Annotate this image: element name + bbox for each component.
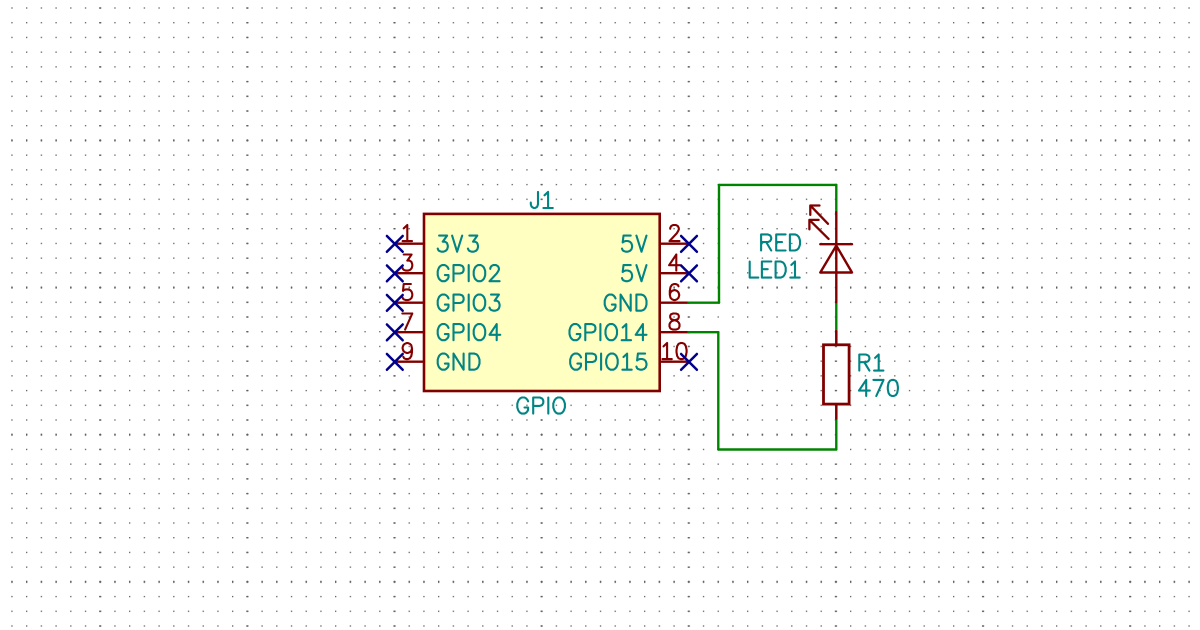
pin number 2 — [670, 225, 680, 241]
R1 bottom lead — [835, 404, 838, 418]
wire to pin8 — [689, 331, 719, 333]
pin 5 lead — [395, 302, 424, 304]
pin 8 lead — [660, 331, 689, 333]
no-connect pin 9 — [387, 354, 403, 370]
reference LED1 — [750, 262, 800, 278]
pin number 1 — [403, 225, 412, 241]
pin name GPIO3 — [438, 295, 500, 311]
no-connect pin 10 — [681, 354, 697, 370]
pin 3 lead — [395, 272, 424, 274]
reference J1 — [531, 192, 553, 208]
pin number 6 — [670, 284, 679, 300]
pin 2 lead — [660, 242, 689, 244]
LED1 top lead — [835, 212, 837, 243]
LED1 emission arrow 1 — [810, 206, 828, 224]
no-connect pin 7 — [387, 325, 403, 341]
pin number 10 — [662, 343, 686, 359]
no-connect pin 2 — [681, 236, 697, 252]
pin number 8 — [670, 314, 680, 330]
pin 6 lead — [660, 302, 689, 304]
LED1 cathode bar — [820, 243, 852, 245]
LED1 body lead — [835, 244, 837, 302]
wire left vertical — [717, 332, 719, 449]
LED1 emission arrow 2 — [809, 220, 828, 239]
wire bottom horizontal — [718, 448, 836, 450]
no-connect pin 4 — [681, 266, 697, 282]
LED1 triangle — [820, 246, 852, 273]
wire resistor down — [835, 418, 837, 450]
pin 7 lead — [395, 331, 424, 333]
value 470 — [859, 380, 898, 396]
pin name GPIO2 — [438, 265, 500, 281]
pin number 3 — [402, 255, 412, 271]
connector J1 body — [424, 214, 660, 391]
pin 4 lead — [660, 272, 689, 274]
pin name GPIO15 — [570, 354, 646, 370]
pin number 4 — [669, 255, 680, 271]
pin name GND — [605, 295, 647, 311]
value GPIO — [517, 398, 565, 414]
pin name GPIO14 — [570, 324, 647, 340]
pin name 3V3 — [438, 236, 478, 252]
no-connect pin 1 — [387, 236, 403, 252]
pin name 5V — [622, 236, 647, 252]
pin number 7 — [402, 314, 412, 330]
wire riser up — [718, 185, 720, 303]
pin name GPIO4 — [438, 324, 501, 340]
pin 9 lead — [395, 361, 424, 363]
no-connect pin 5 — [387, 295, 403, 311]
pin name 5V — [622, 265, 647, 281]
pin 1 lead — [395, 242, 424, 244]
R1 top lead — [835, 331, 838, 345]
pin name GND — [438, 354, 480, 370]
pin number 5 — [402, 284, 412, 300]
no-connect pin 3 — [387, 266, 403, 282]
reference R1 — [859, 355, 883, 371]
wire top horizontal — [719, 184, 836, 186]
wire pin6 to riser — [689, 302, 720, 304]
resistor R1 body — [824, 345, 850, 404]
wire LED to resistor — [835, 302, 837, 332]
label RED — [761, 234, 800, 250]
wire to LED anode — [835, 185, 837, 212]
pin number 9 — [403, 343, 412, 359]
pin 10 lead — [660, 361, 689, 363]
